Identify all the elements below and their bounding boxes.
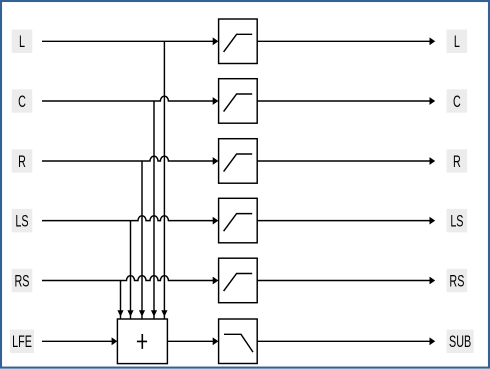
tap wire C to summer (junction at x=154.0) — [151, 101, 157, 319]
output port label L — [447, 30, 468, 53]
input port label L — [12, 30, 33, 53]
output port label RS — [447, 269, 468, 292]
tap wire LS to summer (junction at x=130.5) — [127, 221, 133, 319]
input port label LFE — [10, 330, 34, 353]
svg-text:L: L — [19, 32, 25, 51]
high-pass filter HPF2 (C channel) — [219, 79, 258, 124]
svg-text:LFE: LFE — [12, 332, 32, 351]
wire: HPF1 to output L — [257, 37, 435, 45]
wire: input LS to HPF4 (hops over crossing taps) — [42, 216, 218, 225]
svg-text:R: R — [18, 151, 26, 170]
wire: HPF4 to output LS — [257, 217, 435, 225]
summer S1 (+) — [117, 319, 167, 364]
output port label R — [447, 149, 468, 172]
wire: summer S1 to LPF1 — [167, 337, 218, 345]
tap wire L to summer (junction at x=164.4) — [161, 41, 167, 318]
svg-text:LS: LS — [15, 211, 28, 230]
high-pass filter HPF4 (LS channel) — [219, 198, 258, 243]
output port label LS — [447, 209, 468, 232]
svg-text:LS: LS — [450, 211, 463, 230]
svg-text:RS: RS — [15, 271, 30, 290]
wire: input L to HPF1 (hops over crossing taps) — [42, 37, 218, 45]
svg-text:SUB: SUB — [449, 332, 471, 351]
output port label C — [447, 89, 468, 112]
tap wire R to summer (junction at x=142.0) — [139, 161, 145, 319]
output port label SUB — [447, 330, 474, 353]
wire: input RS to HPF5 (hops over crossing taps) — [42, 276, 218, 285]
svg-text:R: R — [453, 151, 461, 170]
wire: input C to HPF2 (hops over crossing taps) — [42, 96, 218, 105]
svg-text:RS: RS — [449, 271, 464, 290]
wire: HPF5 to output RS — [257, 277, 435, 285]
wire: input R to HPF3 (hops over crossing taps) — [42, 156, 218, 165]
wire: HPF2 to output C — [257, 97, 435, 105]
tap wire RS to summer (junction at x=120.5) — [117, 281, 123, 319]
high-pass filter HPF5 (RS channel) — [219, 258, 258, 303]
low-pass filter LPF1 (subwoofer) — [219, 319, 258, 364]
input port label R — [12, 149, 33, 172]
high-pass filter HPF3 (R channel) — [219, 139, 258, 184]
high-pass filter HPF1 (L channel) — [219, 19, 258, 64]
wire: input LFE to summer — [42, 337, 117, 345]
input port label C — [12, 89, 33, 112]
wire: LPF1 to output SUB — [257, 337, 435, 345]
svg-text:C: C — [453, 91, 461, 110]
wire: HPF3 to output R — [257, 157, 435, 165]
input port label LS — [12, 209, 33, 232]
svg-text:L: L — [454, 32, 460, 51]
svg-text:C: C — [18, 91, 26, 110]
input port label RS — [12, 269, 33, 292]
